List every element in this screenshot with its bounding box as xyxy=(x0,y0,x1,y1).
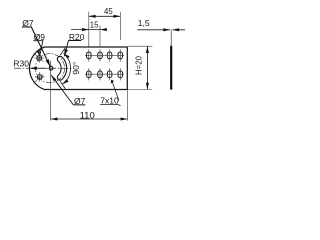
hole O9 center xyxy=(49,66,53,70)
radial extension lines +-55deg xyxy=(60,48,65,89)
side view: thin plate edge xyxy=(170,46,172,90)
svg-text:H=20: H=20 xyxy=(135,55,144,75)
hole O7 upper xyxy=(37,56,42,61)
svg-text:45: 45 xyxy=(104,7,113,16)
90 deg dimension arc xyxy=(62,53,70,84)
svg-text:90°: 90° xyxy=(71,62,81,75)
hole O7 lower xyxy=(37,75,42,80)
main horizontal centerline xyxy=(14,67,72,69)
svg-text:1,5: 1,5 xyxy=(138,18,150,28)
svg-text:15: 15 xyxy=(90,20,99,29)
curved slot 90deg, width 7, on R20 xyxy=(57,56,66,80)
slots 7x10 (two rows of four) xyxy=(87,52,123,78)
svg-text:R30: R30 xyxy=(13,59,29,69)
bolt circle R20 (dash-dot) xyxy=(35,54,64,83)
90 arc arrowheads xyxy=(64,53,70,58)
svg-text:110: 110 xyxy=(80,110,95,121)
plate outline (front view, rounded-end plate) xyxy=(29,47,127,90)
main vertical centerline / 110 extension xyxy=(50,61,52,121)
radial centerlines of ring holes xyxy=(33,53,43,83)
slot centerlines xyxy=(85,49,124,80)
svg-text:7x10: 7x10 xyxy=(100,95,119,105)
